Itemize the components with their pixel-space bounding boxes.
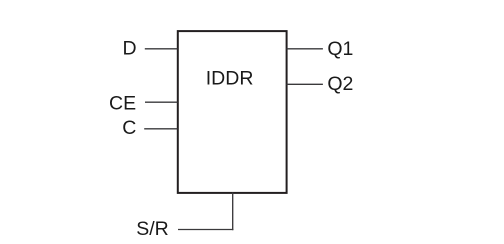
pin label Q1: [327, 38, 353, 60]
wire S/R horizontal segment: [178, 229, 233, 231]
pin label D: [123, 37, 137, 59]
svg-text:C: C: [122, 117, 136, 139]
svg-text:D: D: [123, 37, 137, 59]
pin label Q2: [327, 73, 353, 95]
wire S/R vertical segment: [232, 193, 234, 231]
wire Q1 output: [287, 48, 323, 50]
wire D input: [145, 48, 178, 50]
label IDDR: [206, 67, 254, 89]
pin label C: [122, 117, 136, 139]
svg-text:Q2: Q2: [327, 73, 353, 95]
pin label CE: [109, 93, 136, 115]
wire Q2 output: [287, 83, 323, 85]
svg-text:IDDR: IDDR: [206, 67, 254, 89]
svg-text:S/R: S/R: [136, 218, 169, 240]
wire C input: [144, 128, 177, 130]
wire CE input: [145, 101, 178, 103]
svg-text:Q1: Q1: [327, 38, 353, 60]
pin label S/R: [136, 218, 169, 240]
svg-text:CE: CE: [109, 93, 136, 115]
block U1 IDDR: [178, 31, 287, 193]
